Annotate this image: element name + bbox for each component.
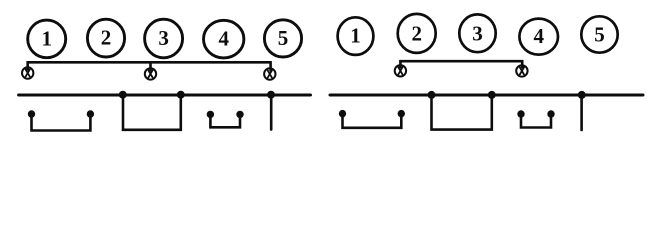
lamp HL2 (circle-X): [145, 68, 156, 79]
junction (J2 right on bus): [177, 91, 185, 99]
svg-text:3: 3: [158, 26, 169, 50]
lamp HL1 (circle-X): [22, 67, 33, 78]
node 2 (left terminal circle): [87, 19, 124, 57]
junction (J5 left on bus): [428, 91, 436, 99]
node 4 (left terminal circle): [204, 20, 244, 58]
jumper J2 (left, U-link on bus): [123, 95, 181, 130]
node H (dot on jumper J6 right pin): [547, 110, 554, 117]
junction (stub on left bus): [267, 91, 275, 99]
jumper J1 (left, free U-link): [32, 114, 91, 131]
svg-text:1: 1: [350, 24, 361, 48]
svg-text:5: 5: [278, 26, 289, 50]
svg-text:2: 2: [101, 26, 112, 50]
node 1 (right terminal circle): [338, 17, 374, 55]
wire (right bus line): [330, 94, 643, 97]
jumper J6 (right, free U-link): [521, 114, 551, 128]
lamp HL3 (circle-X): [264, 68, 275, 79]
jumper J3 (left, free U-link): [210, 114, 240, 127]
wire (left bus line): [19, 94, 311, 97]
node 3 (right terminal circle): [459, 14, 495, 52]
node B (dot on jumper J1 right pin): [87, 110, 94, 117]
junction (stub on right bus): [578, 91, 586, 99]
svg-text:3: 3: [472, 21, 483, 45]
jumper J5 (right, U-link on bus): [432, 95, 492, 130]
node 2 (right terminal circle): [398, 14, 436, 53]
svg-text:4: 4: [218, 27, 229, 51]
svg-text:4: 4: [533, 24, 544, 48]
wire (right lamp garland: horizontal run with two drops): [400, 61, 522, 67]
node F (dot on jumper J4 right pin): [398, 110, 405, 117]
wire (right vertical stub from bus): [580, 95, 583, 130]
node 1 (left terminal circle): [28, 20, 66, 58]
node G (dot on jumper J6 left pin): [517, 110, 524, 117]
lamp HL4 (circle-X): [395, 65, 406, 76]
node 5 (left terminal circle): [264, 20, 301, 57]
node E (dot on jumper J4 left pin): [339, 110, 346, 117]
node C (dot on jumper J3 left pin): [207, 111, 214, 118]
wire (left lamp garland: horizontal run with three drops): [28, 62, 271, 70]
junction (J2 left on bus): [119, 91, 127, 99]
node 5 (right terminal circle): [581, 16, 617, 52]
node D (dot on jumper J3 right pin): [236, 111, 243, 118]
jumper J4 (right, free U-link): [343, 114, 402, 128]
lamp HL5 (circle-X): [516, 65, 527, 76]
node A (dot on jumper J1 left pin): [28, 110, 35, 117]
junction (J5 right on bus): [488, 91, 496, 99]
svg-text:5: 5: [594, 23, 605, 47]
node 3 (left terminal circle): [145, 19, 183, 58]
svg-text:1: 1: [41, 26, 52, 50]
svg-text:2: 2: [411, 21, 422, 45]
wire (left vertical stub from bus): [270, 95, 273, 130]
node 4 (right terminal circle): [519, 19, 558, 55]
